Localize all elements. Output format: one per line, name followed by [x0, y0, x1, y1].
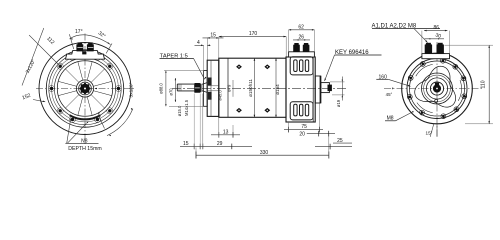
right dim 110 ext bottom	[465, 123, 493, 125]
middle shaft top line	[177, 83, 194, 85]
middle dim 25 line a	[333, 142, 352, 144]
left view bottom leader vertical	[67, 122, 71, 144]
middle dim 4 line	[195, 44, 204, 46]
right dim 110 ext top	[445, 44, 494, 46]
svg-text:ø70: ø70	[168, 88, 173, 96]
right view cast swirl ribs	[415, 66, 456, 107]
right M8 underline	[385, 120, 396, 122]
svg-text:170: 170	[249, 31, 258, 37]
middle dim 330 ext b	[328, 133, 330, 159]
middle brush cover bottom slot 3	[305, 104, 308, 116]
right label underline	[372, 28, 440, 30]
middle dim 25 line b	[315, 146, 352, 148]
svg-text:112: 112	[45, 36, 55, 46]
middle body inner vertical	[227, 58, 229, 117]
svg-text:15°: 15°	[426, 131, 433, 136]
middle dim 20 line	[307, 133, 335, 135]
middle dim 170 line	[219, 36, 286, 38]
engineering drawing sheet	[0, 0, 500, 177]
right terminal stud right	[437, 43, 444, 54]
svg-text:45°: 45°	[386, 92, 393, 97]
right dim 86 ext b	[449, 31, 451, 54]
right view drain hole	[435, 99, 438, 102]
middle view centerline	[172, 87, 346, 89]
left view hub outer circle	[76, 80, 93, 97]
right view vertical centerline	[436, 42, 438, 136]
svg-text:ø45.0: ø45.0	[217, 90, 222, 101]
middle tie-bolt b	[264, 64, 270, 69]
middle brush cover bottom slot 2	[300, 104, 303, 116]
left view horizontal centerline	[36, 88, 135, 90]
left view hub ring	[79, 82, 92, 95]
middle dim 15 line	[203, 37, 224, 39]
middle dim 62 ext b	[313, 30, 315, 52]
middle dim dia88 line	[165, 71, 167, 107]
left view terminal stud right	[87, 42, 94, 51]
right terminal base	[422, 54, 450, 59]
left view splined shaft bore (black)	[79, 83, 90, 94]
middle flange inner line	[210, 60, 212, 116]
left view bolt pad circle	[52, 55, 119, 122]
middle terminal stud right	[303, 43, 310, 52]
left view 152 leader	[33, 100, 45, 102]
svg-text:N8: N8	[81, 138, 88, 144]
middle KEY leader	[325, 55, 335, 81]
right view rim inner circle	[410, 61, 465, 116]
left view 3x120 left guide line	[22, 28, 44, 86]
right terminal stud left	[425, 43, 432, 54]
middle KEY underline	[335, 54, 382, 56]
middle dim dia19 line	[341, 77, 343, 101]
middle shaft stub	[321, 83, 330, 93]
right view outer circle	[402, 53, 473, 124]
right view rim circle	[407, 59, 467, 119]
svg-text:ø154: ø154	[275, 84, 280, 95]
svg-text:330: 330	[260, 150, 269, 156]
right dim 110 line	[488, 45, 490, 124]
svg-text:20: 20	[299, 131, 305, 137]
middle dim dia70 line	[174, 78, 176, 102]
middle brush cover top slot 1	[294, 60, 297, 72]
middle shaft nut	[194, 83, 200, 93]
middle brush cover top slot 2	[300, 60, 303, 72]
middle tie-bolt d	[264, 108, 270, 113]
middle dim 15 ext bottom	[193, 94, 195, 150]
middle dim 75 ext	[288, 122, 290, 132]
left view 3x120 dim arc	[107, 109, 133, 136]
right label leader	[414, 29, 428, 43]
left view terminal gap block	[82, 51, 86, 54]
middle flange boss	[204, 71, 208, 107]
middle terminal base	[289, 52, 315, 57]
middle flange plate	[207, 60, 219, 116]
right view horizontal centerline	[384, 88, 484, 90]
svg-text:ø19: ø19	[336, 99, 341, 107]
left view 112 leader line	[29, 35, 60, 66]
right 160 leader	[388, 79, 410, 86]
middle dim 330 ext a	[195, 148, 197, 159]
svg-text:ø88.0: ø88.0	[158, 82, 163, 93]
right dim 86 ext a	[421, 31, 423, 54]
svg-text:25: 25	[337, 138, 343, 144]
left view small leader arrow bottom right	[98, 115, 104, 129]
svg-text:17°: 17°	[75, 29, 83, 35]
middle bearing boss	[315, 76, 321, 103]
middle dim 15 ticks bottom	[193, 144, 195, 150]
middle dim 13 ext	[218, 117, 220, 137]
svg-text:86: 86	[434, 25, 440, 31]
right view web circle a	[422, 73, 453, 104]
middle flange hatch upper	[208, 78, 212, 86]
right dim 86 line	[424, 30, 447, 32]
middle dim 62 ext a	[288, 30, 290, 52]
left view outer circle ø152	[39, 43, 131, 135]
left view terminal stud left	[76, 42, 83, 51]
right M8 leader	[396, 113, 412, 121]
left view 32deg fan line	[106, 44, 112, 54]
middle dim 29 ext	[202, 94, 204, 150]
middle dim dia150h11 line	[253, 58, 255, 117]
middle terminal stud left	[293, 43, 300, 52]
right 15deg line b	[430, 124, 434, 137]
left view opening inner circle	[57, 61, 112, 116]
middle washer lines	[200, 84, 202, 93]
middle boss ext line bottom	[169, 105, 207, 107]
svg-text:ø150h11: ø150h11	[248, 79, 253, 97]
right 160 underline	[376, 78, 388, 80]
middle dim dia79 line	[232, 80, 234, 97]
svg-text:26: 26	[299, 35, 305, 41]
right view web circle b	[424, 75, 451, 102]
middle flange bore lines	[207, 85, 219, 87]
svg-text:62: 62	[298, 25, 304, 31]
left view bottom bold cover arc	[70, 115, 101, 119]
right view web circle c	[426, 78, 447, 99]
middle body outline	[219, 58, 286, 117]
svg-text:15: 15	[183, 141, 189, 147]
svg-text:TAPER 1:5: TAPER 1:5	[160, 54, 188, 60]
svg-text:3x120°: 3x120°	[128, 82, 134, 97]
svg-text:15: 15	[210, 33, 216, 39]
middle boss ext line top	[164, 70, 207, 72]
middle dim 13 line	[211, 134, 240, 136]
left view N8 baseline	[65, 142, 98, 144]
middle shaft key (black)	[328, 85, 332, 92]
left view fan arrow a	[70, 39, 72, 40]
svg-text:DEPTH 15mm: DEPTH 15mm	[68, 146, 101, 152]
left view 3x120 arc arrow a	[109, 135, 111, 137]
middle dim 15 ext b	[218, 38, 220, 58]
middle tie-bolt c	[236, 108, 242, 113]
svg-text:M14x1.5: M14x1.5	[184, 99, 189, 116]
middle taper leader	[194, 58, 205, 79]
svg-text:110: 110	[481, 80, 487, 88]
middle dim dia19 ext top	[330, 81, 345, 83]
svg-text:13: 13	[223, 129, 229, 135]
middle flange hatch lower	[208, 92, 212, 100]
middle brush cover top slot 3	[305, 60, 308, 72]
left view end-shield rim circle	[46, 50, 123, 127]
left view fan arrow b	[108, 42, 110, 44]
left view rim inner circle	[49, 52, 121, 124]
middle brush cover bottom	[290, 102, 313, 120]
middle dim 170 ext	[285, 37, 287, 57]
middle brush cover top	[290, 57, 313, 75]
middle shaft thread ticks	[178, 84, 180, 91]
middle dim 4 extension	[203, 45, 205, 80]
middle dim 330 line	[196, 154, 329, 156]
svg-text:4: 4	[197, 40, 200, 46]
left view fan spokes (12)	[94, 81, 112, 86]
svg-text:ø15.0: ø15.0	[177, 105, 182, 116]
right view bolt holes (10)	[461, 76, 466, 81]
middle dim 62 line	[289, 29, 315, 31]
middle taper top line	[202, 83, 207, 85]
left view vertical centerline	[84, 34, 86, 147]
svg-text:29: 29	[217, 141, 223, 147]
right view hub circle	[430, 82, 443, 95]
middle shaft bottom line	[177, 90, 194, 92]
left view terminal block	[66, 50, 105, 59]
left view opening rim circle	[54, 58, 115, 119]
middle taper bottom line	[202, 91, 207, 93]
left view hub spline leader arrow	[94, 88, 97, 90]
middle dim dia19 ext bottom	[332, 94, 345, 96]
middle dim 26 line	[293, 39, 310, 41]
right view hub black center with keyway	[433, 83, 441, 93]
middle dim 15 ext a	[206, 38, 208, 60]
left view fan dimension arc	[70, 35, 111, 45]
svg-text:75: 75	[301, 124, 307, 130]
left view 3x120 arc arrow b	[131, 108, 132, 110]
svg-text:ø79: ø79	[226, 84, 231, 92]
left view mounting bolts on bolt circle (10)	[117, 87, 120, 90]
middle dim 75 line	[284, 129, 323, 131]
middle dim 29 line	[180, 145, 252, 147]
middle tie-bolt a	[236, 64, 242, 69]
left view bottom leader diagonal	[67, 124, 86, 144]
middle bearing boss bold edge	[319, 76, 321, 103]
left view 17deg fan line	[69, 34, 73, 49]
middle brush cover bottom slot 1	[294, 104, 297, 116]
right 15deg line a	[436, 124, 438, 137]
middle taper underline	[160, 57, 194, 59]
middle end housing outline	[286, 57, 315, 122]
right dim 30 line	[425, 38, 445, 40]
svg-text:152: 152	[21, 93, 31, 102]
middle dim dia154 line	[275, 58, 277, 117]
svg-text:3x120°: 3x120°	[25, 58, 37, 74]
middle end housing face line	[312, 57, 314, 122]
middle shaft end edge	[176, 84, 178, 91]
